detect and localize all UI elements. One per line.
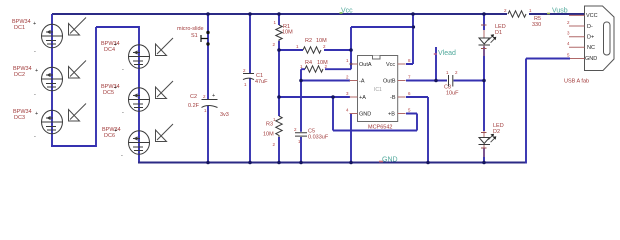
light arrows DC6 [156,124,174,142]
svg-text:-: - [34,49,36,55]
svg-text:-B: -B [390,95,396,101]
light arrows DC4 [156,38,174,56]
resistor R3 10M [263,116,282,147]
svg-text:-: - [122,67,124,73]
svg-text:Vcc: Vcc [386,62,395,68]
svg-text:+: + [212,93,215,99]
svg-text:OutA: OutA [359,62,372,68]
svg-text:+: + [114,85,117,91]
svg-text:R4: R4 [305,60,312,66]
photodiode DC2 [13,66,63,98]
svg-text:+A: +A [359,95,366,101]
LED D2 [479,123,504,157]
wire photodiode column 2 [138,26,140,163]
svg-text:USB A fab: USB A fab [564,79,589,85]
svg-text:OutB: OutB [383,79,396,85]
wire C1 column [249,14,251,163]
svg-text:+: + [33,21,36,27]
resistor R1 10M [273,20,294,47]
wire +A to +B U route [333,97,417,131]
svg-text:-: - [122,110,124,116]
capacitor C1 47uF [243,68,268,87]
node GND label [379,157,398,164]
wire inverting A node column with C5 [300,69,302,162]
light arrows DC1 [69,18,87,36]
resistor R4 10M [300,60,328,72]
wire R2 row to IC pin1 [279,27,414,69]
wire GND bottom rail [138,162,526,164]
node Vcc label [340,8,354,15]
svg-text:D+: D+ [587,35,594,41]
svg-text:D1: D1 [495,30,502,36]
svg-text:S1: S1 [191,33,198,39]
svg-text:NC: NC [587,45,595,51]
svg-text:+: + [35,68,38,74]
resistor R2 10M [296,38,327,53]
photodiode DC1 [12,19,63,55]
wire IC pin7 to C3 and Vlead [406,47,484,81]
photodiode DC4 [101,41,150,73]
wire IC pin8 to Vcc [406,14,413,64]
svg-text:GND: GND [585,56,597,62]
svg-text:MCP6542: MCP6542 [368,125,392,131]
photodiode DC6 [102,127,150,159]
svg-text:0.033uF: 0.033uF [308,135,329,141]
wire IC pin2 [301,80,350,82]
svg-text:Vusb: Vusb [552,8,568,15]
capacitor C5 0.033uF [294,127,329,144]
photodiode DC3 [13,109,63,140]
svg-text:DC5: DC5 [103,90,114,96]
wire switch S1 column [207,14,209,163]
svg-text:10uF: 10uF [446,91,459,97]
svg-text:Vlead: Vlead [438,50,456,57]
wire GND to USB pin5 [526,59,570,164]
capacitor C2 0.2F supercap [188,93,229,118]
svg-text:micro-slide: micro-slide [177,26,204,32]
svg-text:Vcc: Vcc [341,8,353,15]
wire photodiode column 1 [51,14,53,146]
svg-text:DC1: DC1 [14,25,25,31]
svg-text:IC1: IC1 [374,87,382,93]
node Vlead label [434,50,456,57]
node Vusb label [547,8,568,15]
light arrows DC2 [69,61,87,79]
svg-text:DC3: DC3 [14,115,25,121]
svg-text:-A: -A [359,79,365,85]
svg-text:VCC: VCC [586,13,598,19]
svg-text:0.2F: 0.2F [188,103,200,109]
svg-text:-: - [34,134,36,140]
svg-text:10M: 10M [263,132,274,138]
svg-text:GND: GND [359,112,371,118]
svg-text:DC2: DC2 [14,72,25,78]
wire Vcc top rail [52,13,507,15]
svg-text:R3: R3 [266,122,273,128]
svg-text:+: + [114,42,117,48]
LED D1 [479,24,506,56]
wire Vusb segment [529,13,585,15]
svg-text:-: - [121,153,123,159]
wire R4 row [301,68,351,70]
svg-text:D2: D2 [493,129,500,135]
light arrows DC5 [156,81,174,99]
svg-text:+: + [114,128,117,134]
svg-text:C2: C2 [190,94,197,100]
wire IC pin6 to GND [406,97,428,163]
wire bottom jog column1 to column2 [51,27,139,147]
switch S1 micro-slide [177,26,210,46]
resistor R5 330 [504,8,541,28]
svg-text:+B: +B [388,112,395,118]
USB A female connector [564,6,614,85]
capacitor C3 10uF [444,70,459,97]
wire IC pin4 to GND [350,114,352,163]
svg-text:3v3: 3v3 [220,112,229,118]
svg-text:330: 330 [532,22,541,28]
photodiode DC5 [101,84,150,116]
wire R1 R3 divider column [278,14,280,163]
op-amp IC1 MCP6542 [346,56,411,131]
svg-text:-: - [34,92,36,98]
wire IC pin3 [279,96,350,98]
svg-text:10M: 10M [282,30,293,36]
wire LED column [483,14,485,163]
svg-text:D-: D- [587,24,593,30]
svg-text:+: + [35,111,38,117]
light arrows DC3 [69,104,87,122]
node junction dots [206,12,486,164]
svg-text:GND: GND [382,157,398,164]
svg-text:47uF: 47uF [255,79,268,85]
svg-text:R2: R2 [305,38,312,44]
